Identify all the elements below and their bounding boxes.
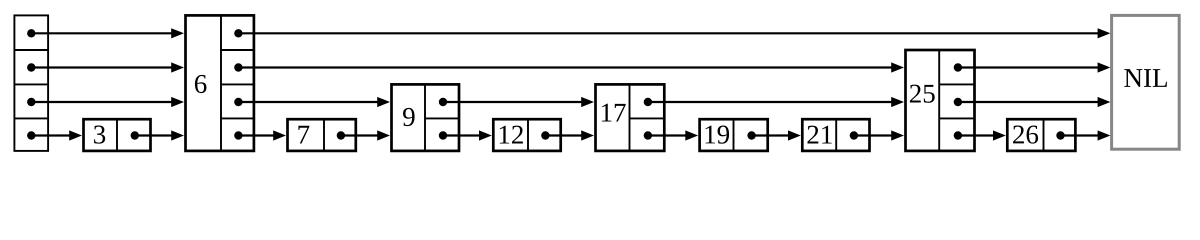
arrow head → 3 (level 1)	[31, 130, 82, 140]
node 6 pointer dot level 3	[234, 63, 242, 71]
node 19 pointer dot level 1	[747, 131, 755, 139]
node 26	[1007, 119, 1075, 151]
node 7 key label	[298, 126, 309, 144]
node 12 key label	[500, 126, 523, 144]
arrow 25 → NIL (level 3)	[958, 62, 1111, 72]
node 21 pointer dot level 1	[850, 131, 858, 139]
arrow 21 → 25 (level 1)	[854, 130, 904, 140]
node 12	[493, 119, 560, 151]
node 3 pointer dot level 1	[131, 131, 139, 139]
arrow 17 → 19 (level 1)	[648, 130, 698, 140]
arrow 9 → 12 (level 1)	[443, 130, 492, 140]
NIL label	[1124, 69, 1167, 87]
node 21 key label	[808, 126, 832, 144]
node 9 key label	[403, 108, 415, 126]
arrow 12 → 17 (level 1)	[545, 130, 594, 140]
node 6 pointer dot level 4	[234, 29, 242, 37]
arrow 6 → 25 (level 3)	[238, 62, 904, 72]
node 25 key label	[910, 85, 935, 103]
node 6	[186, 15, 254, 151]
node 17 key label	[602, 104, 626, 122]
head pointer dot level 3	[27, 63, 35, 71]
arrow head → 6 (level 2)	[31, 97, 184, 107]
arrow 3 → 6 (level 1)	[135, 130, 184, 140]
head pointer dot level 1	[27, 131, 35, 139]
node 21	[802, 119, 869, 151]
node 17 pointer dot level 2	[644, 98, 652, 106]
NIL sentinel box	[1112, 15, 1180, 149]
node 17 pointer dot level 1	[644, 131, 652, 139]
arrow 25 → NIL (level 2)	[958, 97, 1111, 107]
node 3	[84, 119, 151, 151]
arrow 9 → 17 (level 2)	[443, 97, 594, 107]
arrow 6 → NIL (level 4)	[238, 28, 1110, 38]
arrow head → 6 (level 4)	[31, 28, 184, 38]
head pointer dot level 2	[27, 98, 35, 106]
head node (4-level header)	[14, 15, 48, 151]
node 12 pointer dot level 1	[541, 131, 549, 139]
node 6 pointer dot level 1	[234, 131, 242, 139]
arrow 7 → 9 (level 1)	[341, 130, 390, 140]
node 3 key label	[94, 126, 105, 144]
arrow 6 → 9 (level 2)	[238, 97, 390, 107]
node 25 pointer dot level 2	[954, 98, 962, 106]
node 26 pointer dot level 1	[1056, 131, 1064, 139]
node 25 pointer dot level 1	[954, 131, 962, 139]
node 25 pointer dot level 3	[954, 63, 962, 71]
arrow 25 → 26 (level 1)	[958, 130, 1006, 140]
node 7	[288, 119, 356, 151]
node 19	[700, 119, 768, 151]
node 19 key label	[706, 126, 730, 144]
arrow 26 → NIL (level 1)	[1061, 130, 1111, 140]
node 9 pointer dot level 1	[439, 131, 447, 139]
arrow 17 → 25 (level 2)	[648, 97, 904, 107]
arrow 19 → 21 (level 1)	[752, 130, 801, 140]
node 9	[392, 84, 460, 150]
arrow 6 → 7 (level 1)	[238, 130, 286, 140]
head pointer dot level 4	[27, 29, 35, 37]
arrow head → 6 (level 3)	[31, 62, 184, 72]
node 25	[906, 50, 975, 151]
node 9 pointer dot level 2	[439, 98, 447, 106]
node 7 pointer dot level 1	[337, 131, 345, 139]
node 17	[596, 84, 665, 150]
node 6 pointer dot level 2	[234, 98, 242, 106]
node 26 key label	[1013, 126, 1038, 144]
node 6 key label	[195, 75, 207, 93]
